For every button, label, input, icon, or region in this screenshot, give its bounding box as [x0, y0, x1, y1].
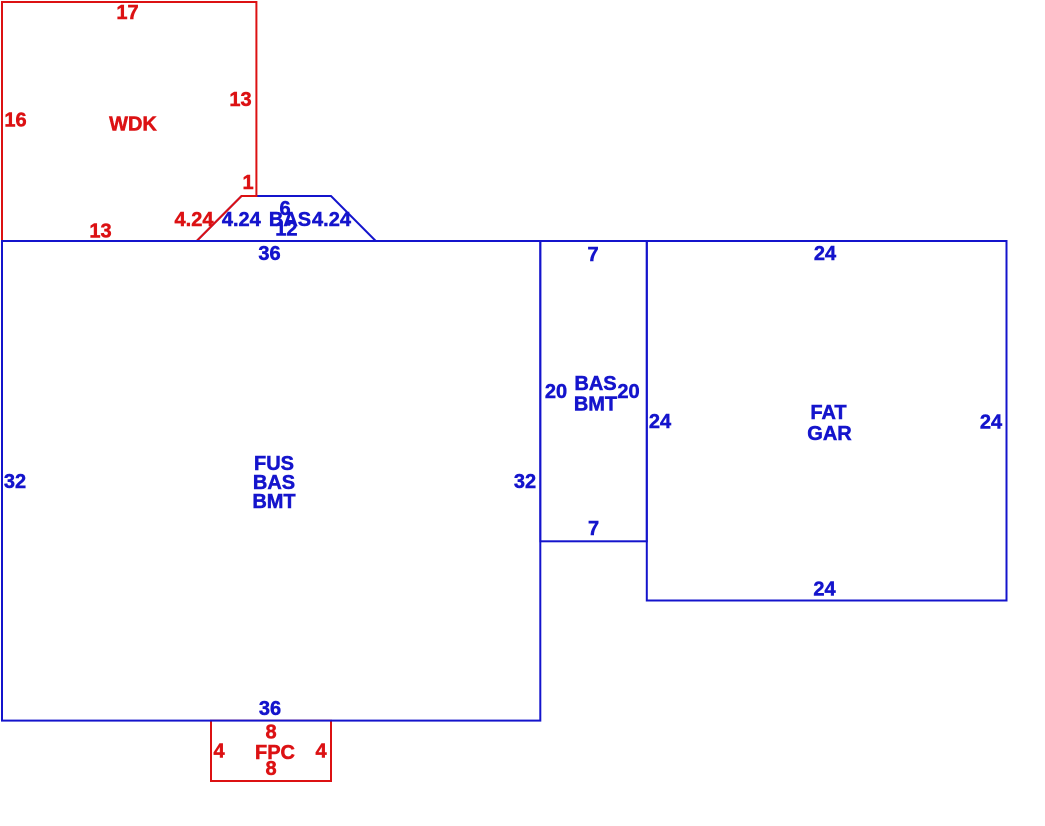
- svg-text:BAS: BAS: [574, 373, 616, 395]
- svg-text:13: 13: [89, 221, 111, 243]
- FPC porch outline: [211, 721, 331, 782]
- FUS BAS BMT main house outline: [2, 241, 540, 721]
- svg-text:FAT: FAT: [810, 402, 846, 424]
- svg-text:4.24: 4.24: [222, 209, 262, 231]
- svg-text:4: 4: [315, 741, 327, 763]
- BAS trapezoid addition outline: [197, 196, 376, 241]
- svg-text:24: 24: [649, 411, 672, 433]
- svg-text:32: 32: [4, 471, 26, 493]
- svg-text:7: 7: [587, 244, 598, 266]
- svg-text:20: 20: [545, 381, 567, 403]
- svg-text:24: 24: [813, 579, 836, 601]
- svg-text:13: 13: [229, 89, 251, 111]
- svg-text:WDK: WDK: [109, 114, 157, 136]
- BAS BMT breezeway outline: [540, 241, 647, 541]
- svg-text:BMT: BMT: [574, 394, 617, 416]
- FAT GAR garage outline: [647, 241, 1007, 601]
- svg-text:17: 17: [116, 2, 138, 24]
- svg-text:16: 16: [4, 110, 26, 132]
- svg-text:8: 8: [265, 722, 276, 744]
- svg-text:BMT: BMT: [252, 491, 295, 513]
- svg-text:4.24: 4.24: [175, 209, 215, 231]
- WDK wood deck outline: [2, 2, 256, 241]
- svg-text:12: 12: [275, 219, 297, 241]
- svg-text:24: 24: [980, 412, 1003, 434]
- svg-text:8: 8: [265, 758, 276, 780]
- svg-text:36: 36: [259, 698, 281, 720]
- svg-text:36: 36: [258, 243, 280, 265]
- svg-text:24: 24: [814, 243, 837, 265]
- svg-text:32: 32: [514, 471, 536, 493]
- svg-text:GAR: GAR: [807, 423, 852, 445]
- svg-text:4.24: 4.24: [312, 209, 352, 231]
- svg-text:20: 20: [617, 381, 639, 403]
- svg-text:1: 1: [242, 172, 253, 194]
- svg-text:7: 7: [588, 518, 599, 540]
- svg-text:4: 4: [213, 741, 225, 763]
